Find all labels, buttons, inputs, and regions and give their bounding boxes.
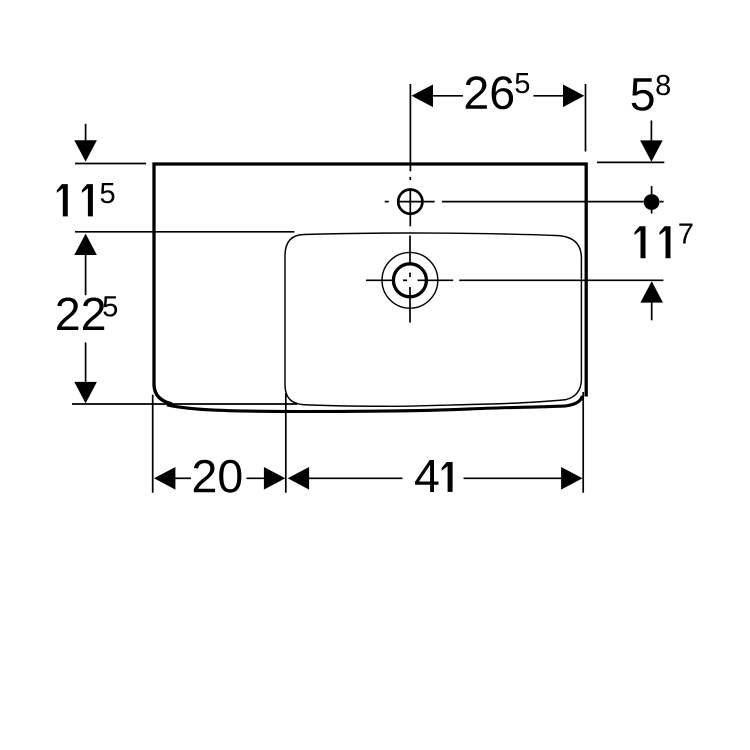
dimension 11.5 down arrowhead xyxy=(74,140,97,161)
faucet hole horizontal centerline dash xyxy=(385,201,389,203)
dimension 22.5 up arrowhead xyxy=(74,234,97,255)
dimension 20 left arrowhead xyxy=(154,467,175,490)
faucet hole circle xyxy=(398,190,422,214)
dimension 41 line left segment xyxy=(309,477,403,479)
leader line from faucet hole to wall-fixing dot xyxy=(442,201,644,203)
dimension 26.5 line left segment xyxy=(433,95,464,97)
dimension text 11.5 xyxy=(57,184,68,216)
dimension text 26 xyxy=(466,76,513,109)
dimension 11.7 arrow stem xyxy=(651,302,653,320)
dimension 26.5 line right segment xyxy=(534,95,564,97)
drain horizontal centerline right xyxy=(418,279,454,281)
top edge extension line left xyxy=(75,163,146,165)
drain horizontal centerline left xyxy=(366,279,393,281)
dimension 20 left extension line xyxy=(152,395,154,493)
wall-fixing dot vertical tick xyxy=(651,186,653,214)
dimension 11.7 text 11 xyxy=(635,226,646,258)
dimension 20 line left segment xyxy=(175,477,191,479)
dimension text 11.5 superscript 5 xyxy=(101,183,115,203)
drain leader line to 11.7 arrow xyxy=(459,279,663,281)
dimension text 22.5 xyxy=(57,298,104,331)
dimension 11.5 upper arrow stem xyxy=(85,124,87,141)
washbasin outer outline xyxy=(154,164,586,404)
dimension 41 right arrowhead xyxy=(561,467,582,490)
dimension 41 line right segment xyxy=(464,477,562,479)
dimension 26.5 left extension line (faucet centerline above) xyxy=(409,84,411,171)
bowl top extension line left xyxy=(75,231,294,233)
dimension 26.5 right arrowhead xyxy=(563,85,584,108)
dimension 5.8 down arrowhead xyxy=(640,140,663,161)
dimension text 22.5 superscript 5 xyxy=(103,296,117,316)
drain horizontal centerline dash xyxy=(403,279,407,281)
dimension 26.5 left arrowhead xyxy=(412,85,434,108)
dimension text 41 xyxy=(415,460,438,492)
dimension 11.7 superscript 7 xyxy=(679,224,692,244)
dimension 20/41 shared extension line xyxy=(285,393,287,493)
washbasin bottom rear thin edge xyxy=(72,403,297,405)
dimension 5.8 superscript 8 xyxy=(656,75,670,96)
dimension 41 right extension line xyxy=(582,392,584,493)
faucet hole horizontal centerline xyxy=(398,201,434,203)
faucet hole vertical centerline dash xyxy=(409,177,411,180)
wall-fixing dot xyxy=(644,194,660,210)
drain inner circle xyxy=(393,264,426,297)
inner bowl outline xyxy=(285,233,581,406)
dimension 41 left arrowhead xyxy=(288,467,309,490)
dimension 5.8 text 5 xyxy=(632,78,654,111)
dimension 22.5 upper stem xyxy=(85,255,87,296)
washbasin front apron thick curve xyxy=(167,396,582,412)
dimension 20 right arrowhead xyxy=(264,467,285,490)
drain vertical centerline lower xyxy=(409,287,411,323)
drain vertical centerline dash xyxy=(409,273,411,278)
dimension 22.5 lower stem xyxy=(85,343,87,382)
dimension 11.7 up arrowhead xyxy=(640,281,663,302)
faucet hole vertical centerline xyxy=(409,189,411,226)
dimension text 26 superscript 5 xyxy=(516,73,530,93)
drain vertical centerline upper xyxy=(409,236,411,264)
dimension 20 line right segment xyxy=(247,477,265,479)
dimension 22.5 down arrowhead xyxy=(74,382,97,404)
dimension 5.8 arrow stem xyxy=(650,121,652,142)
dimension 26.5 right extension line xyxy=(585,84,587,152)
dimension 5.8 extension line xyxy=(597,161,664,163)
wall-fixing dot right stub xyxy=(660,201,664,203)
drain outer circle xyxy=(382,252,438,308)
dimension text 20 xyxy=(194,460,242,493)
